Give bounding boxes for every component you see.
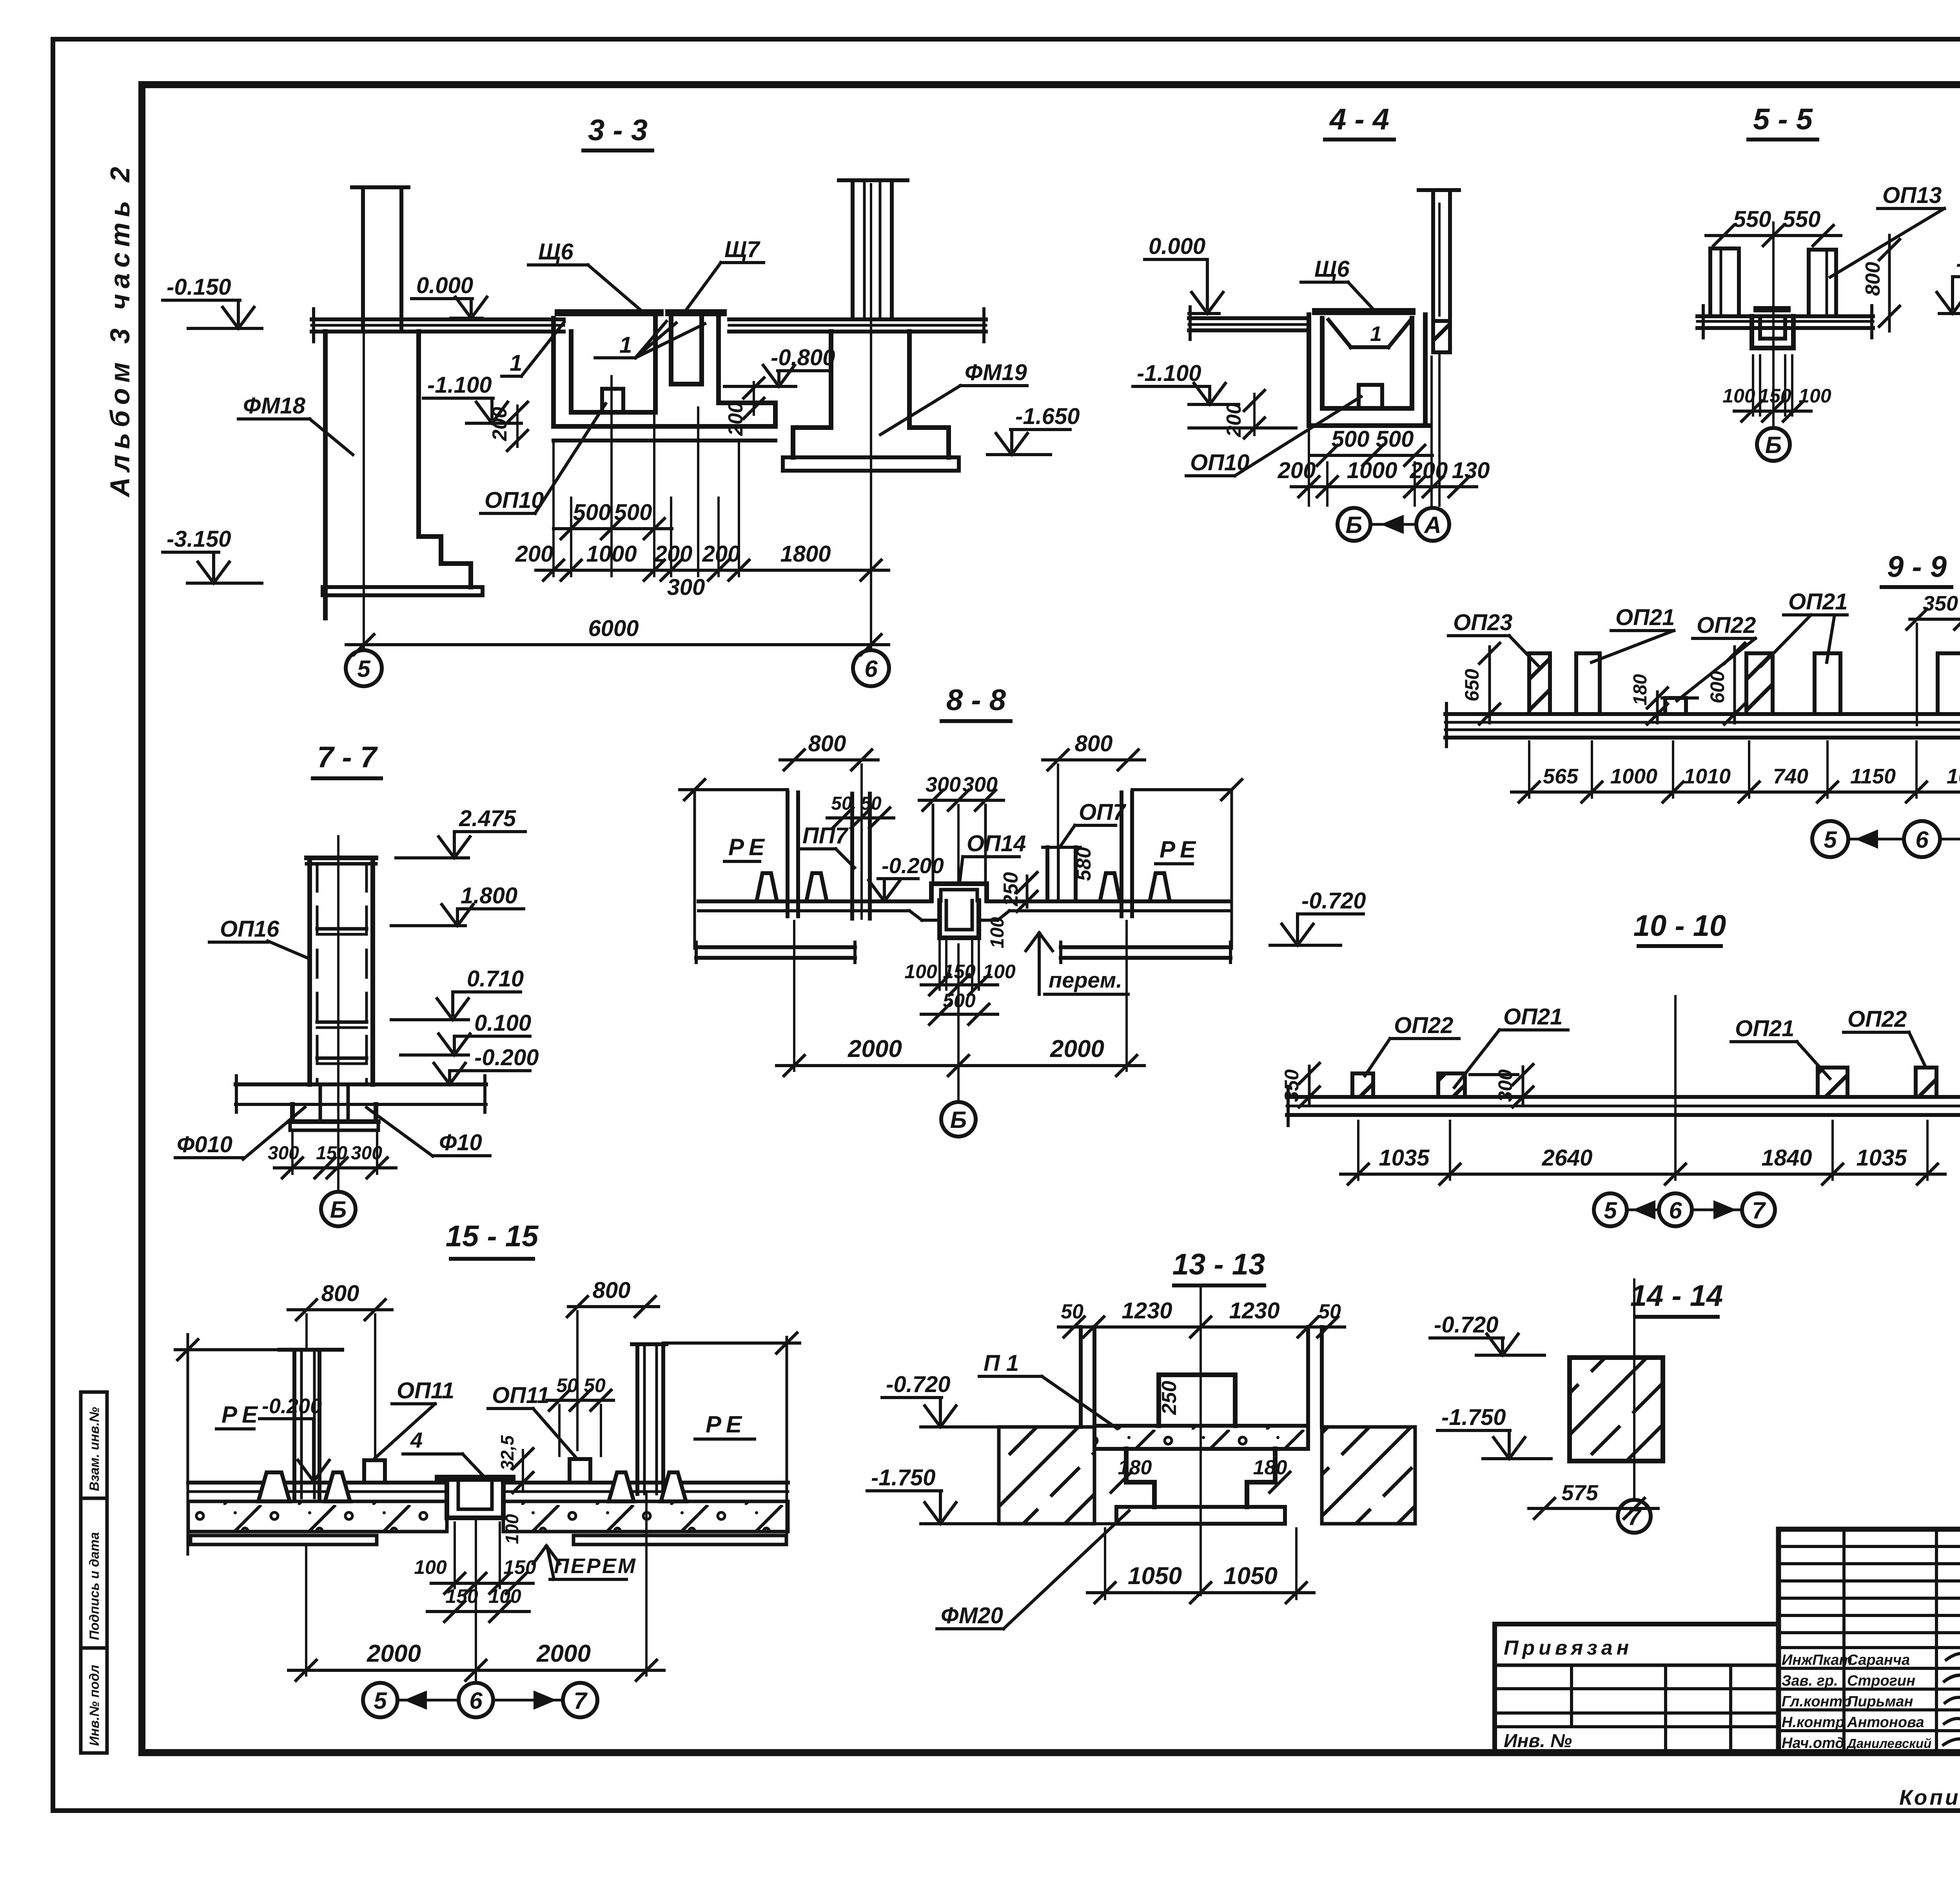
- svg-text:РЕ: РЕ: [221, 1401, 262, 1428]
- signatures: [1946, 1653, 1960, 1662]
- svg-text:50: 50: [556, 1374, 578, 1396]
- section 15-15 floor bumps: [258, 1472, 290, 1501]
- svg-text:250: 250: [1158, 1381, 1181, 1415]
- section 8-8 right post OP7: [1045, 847, 1049, 901]
- svg-text:50: 50: [1318, 1300, 1341, 1323]
- svg-text:Зав. гр.: Зав. гр.: [1782, 1673, 1838, 1689]
- section 5-5 U channel: [1749, 316, 1754, 348]
- section 15-15 block OP11 left: [364, 1460, 385, 1483]
- svg-text:650: 650: [1461, 669, 1483, 702]
- svg-text:1000: 1000: [1610, 765, 1657, 788]
- section 15-15 right boundary extension: [786, 1337, 788, 1542]
- section 5-5 dim 100 150 100: [1734, 410, 1811, 413]
- section 15-15 block OP11 right: [570, 1459, 590, 1483]
- svg-text:100: 100: [904, 961, 937, 983]
- svg-text:5: 5: [374, 1688, 387, 1714]
- section 8-8 left boundary extension: [693, 790, 696, 948]
- svg-text:6: 6: [469, 1688, 483, 1714]
- svg-text:ОП21: ОП21: [1788, 589, 1847, 615]
- svg-text:1050: 1050: [1128, 1563, 1182, 1590]
- svg-text:4: 4: [410, 1428, 423, 1452]
- section 15-15 floor left: [188, 1481, 447, 1485]
- section 8-8 left wall panel: [786, 792, 789, 916]
- svg-text:550: 550: [1733, 207, 1771, 232]
- svg-text:4 - 4: 4 - 4: [1329, 103, 1389, 136]
- section 3-3 left column: [352, 185, 408, 189]
- svg-text:-3.150: -3.150: [167, 526, 231, 552]
- section 13-13 footing below: [1126, 1449, 1154, 1507]
- section 3-3 axis circle 5: [346, 650, 382, 686]
- svg-text:575: 575: [1561, 1480, 1598, 1505]
- svg-text:300: 300: [268, 1143, 299, 1164]
- section 13-13 ground mass left: [999, 1427, 1094, 1524]
- svg-text:1.800: 1.800: [461, 883, 517, 908]
- section 14-14 axis circle 7: [1618, 1500, 1651, 1533]
- section 13-13 ground mass right: [1322, 1427, 1415, 1524]
- svg-text:1800: 1800: [780, 541, 831, 567]
- svg-text:5: 5: [357, 656, 371, 682]
- title block small grid rows: [1779, 1545, 1960, 1548]
- svg-text:Б: Б: [950, 1107, 967, 1133]
- svg-text:-1.650: -1.650: [1015, 404, 1080, 429]
- section 15-15 lower dims row2: [427, 1610, 529, 1613]
- svg-text:Взам. инв.№: Взам. инв.№: [87, 1407, 102, 1491]
- section 9-9 axis circles: [1812, 821, 1848, 857]
- section 3-3 axis line 6: [870, 184, 872, 647]
- section 9-9 post OP23 hatched: [1529, 653, 1550, 714]
- svg-text:Инв. №: Инв. №: [1504, 1731, 1572, 1751]
- section 10-10 300 dim: [1522, 1067, 1524, 1106]
- section 5-5 slab: [1702, 306, 1705, 338]
- section 15-15 axis circles: [363, 1683, 397, 1717]
- section 10-10 extension lines: [1357, 1121, 1359, 1180]
- svg-text:1150: 1150: [1850, 765, 1896, 788]
- svg-text:-1.100: -1.100: [427, 372, 492, 398]
- svg-text:0.710: 0.710: [467, 966, 524, 992]
- svg-text:100: 100: [983, 961, 1016, 983]
- svg-text:Привязан: Привязан: [1504, 1637, 1633, 1659]
- section 9-9 post OP21: [1576, 653, 1600, 714]
- svg-text:200: 200: [1410, 458, 1448, 483]
- svg-text:200: 200: [654, 541, 693, 567]
- section 3-3 anchor block OP10: [602, 389, 623, 412]
- svg-text:ОП13: ОП13: [1882, 183, 1942, 208]
- svg-text:100: 100: [1798, 385, 1831, 407]
- title block name rows: [1779, 1667, 1960, 1670]
- section 3-3 footing FM19: [829, 332, 833, 428]
- svg-text:П 1: П 1: [984, 1351, 1019, 1376]
- section 4-4 pit funnel: [1328, 320, 1351, 347]
- section 4-4 dim 500 500: [1310, 454, 1432, 457]
- svg-text:Гл.контр: Гл.контр: [1782, 1693, 1852, 1710]
- svg-text:300: 300: [351, 1143, 382, 1164]
- svg-text:500: 500: [573, 500, 611, 525]
- section 3-3 floor slab right: [729, 317, 986, 321]
- svg-text:-0.200: -0.200: [474, 1045, 539, 1070]
- svg-text:Инв.№ подл: Инв.№ подл: [87, 1665, 102, 1746]
- section 5-5 800 vertical dim: [1888, 235, 1891, 331]
- svg-text:ФМ20: ФМ20: [941, 1603, 1003, 1628]
- svg-text:ОП11: ОП11: [397, 1378, 454, 1403]
- svg-text:150: 150: [1759, 385, 1791, 407]
- section 10-10 post 4 hatched: [1916, 1068, 1936, 1097]
- svg-text:500: 500: [614, 500, 652, 525]
- section 9-9 post hatched 4: [1746, 653, 1773, 714]
- svg-text:Антонова: Антонова: [1847, 1714, 1924, 1731]
- svg-text:150: 150: [445, 1585, 478, 1607]
- svg-text:7 - 7: 7 - 7: [317, 741, 378, 774]
- svg-text:800: 800: [593, 1278, 631, 1303]
- svg-text:180: 180: [1118, 1456, 1152, 1479]
- section 15-15 base plate left: [191, 1535, 377, 1545]
- section 15-15 dim 800 left: [288, 1308, 392, 1311]
- section 4-4 axis arrow: [1372, 523, 1416, 526]
- svg-text:2640: 2640: [1541, 1145, 1592, 1171]
- svg-text:ОП11: ОП11: [492, 1383, 550, 1408]
- svg-text:100: 100: [502, 1514, 522, 1544]
- section 4-4 extension lines: [1308, 431, 1310, 506]
- section 4-4 floor slab left: [1189, 316, 1309, 320]
- svg-text:13 - 13: 13 - 13: [1172, 1248, 1265, 1281]
- svg-text:1050: 1050: [1223, 1563, 1278, 1590]
- svg-text:250: 250: [1000, 872, 1022, 906]
- section 10-10 center line: [1674, 996, 1677, 1180]
- svg-text:800: 800: [1075, 731, 1113, 756]
- section 15-15 lower dims row1: [454, 1523, 456, 1588]
- svg-text:9 - 9: 9 - 9: [1887, 550, 1947, 584]
- svg-text:180: 180: [1253, 1456, 1287, 1479]
- svg-text:14 - 14: 14 - 14: [1630, 1279, 1723, 1312]
- section 5-5 lid bar: [1757, 306, 1788, 312]
- section 8-8 dim 500: [921, 1013, 998, 1016]
- section 7-7 footing wings: [236, 1082, 486, 1086]
- section 4-4 right column: [1419, 188, 1459, 192]
- svg-text:130: 130: [1452, 458, 1490, 483]
- svg-text:2000: 2000: [367, 1640, 421, 1667]
- section 3-3 dim 500 500: [554, 527, 672, 530]
- section 3-3 dim row 200 1000 200 200 1800: [536, 569, 889, 572]
- svg-text:1: 1: [1370, 322, 1382, 346]
- section 15-15 dim 2000 2000: [305, 1546, 307, 1675]
- svg-text:1010: 1010: [1684, 765, 1731, 788]
- svg-text:50: 50: [860, 793, 882, 814]
- svg-text:-0.720: -0.720: [886, 1372, 950, 1397]
- svg-text:-0.800: -0.800: [771, 345, 835, 370]
- section 4-4 axis circle A: [1416, 508, 1449, 541]
- section 8-8 floor left: [699, 899, 931, 903]
- section 15-15 left boundary extension: [187, 1334, 189, 1554]
- svg-text:2000: 2000: [1050, 1035, 1104, 1062]
- section 3-3 pit walls: [551, 318, 556, 426]
- section 4-4 shield SCH6 bar: [1316, 308, 1412, 315]
- section 10-10 post 1 hatched: [1352, 1073, 1373, 1097]
- section 10-10 post 2 hatched: [1438, 1073, 1465, 1097]
- svg-text:Щ6: Щ6: [538, 239, 573, 265]
- svg-text:200: 200: [515, 541, 554, 567]
- svg-text:800: 800: [321, 1281, 359, 1306]
- section 8-8 bottom plate right: [1061, 945, 1230, 949]
- svg-text:-0.720: -0.720: [1434, 1312, 1498, 1338]
- section 15-15 base plate right: [573, 1535, 786, 1545]
- svg-text:6: 6: [1669, 1197, 1682, 1224]
- svg-text:РЕ: РЕ: [1160, 836, 1200, 863]
- section 7-7 axis line: [337, 836, 339, 1191]
- svg-text:-0.150: -0.150: [167, 274, 231, 300]
- section 3-3 dim 6000: [346, 643, 889, 646]
- svg-text:5 - 5: 5 - 5: [1753, 103, 1813, 136]
- svg-text:200: 200: [1278, 458, 1316, 483]
- svg-text:350: 350: [1281, 1069, 1303, 1102]
- section 9-9 600 dim: [1733, 647, 1736, 723]
- section 3-3 extension lines below pit: [552, 443, 555, 576]
- svg-text:7: 7: [573, 1688, 588, 1714]
- section 8-8 dim 50 50: [827, 816, 894, 819]
- section 9-9 dim 350 top: [1910, 618, 1960, 621]
- svg-text:200: 200: [724, 402, 747, 436]
- title block outer: [1779, 1529, 1960, 1753]
- section 8-8 floor right: [987, 899, 1230, 903]
- section 9-9 650 dim left: [1488, 647, 1491, 723]
- section 3-3 left wall base plate: [323, 587, 483, 595]
- svg-text:ОП21: ОП21: [1735, 1016, 1794, 1041]
- section 3-3 shield SCH7: [669, 309, 723, 316]
- section 3-3 pit 200 vertical dim: [516, 406, 519, 447]
- section 15-15 dim 800 right: [568, 1305, 659, 1308]
- section 3-3 axis line 5: [363, 297, 365, 647]
- svg-text:150: 150: [316, 1143, 347, 1164]
- svg-text:50: 50: [831, 793, 852, 814]
- svg-text:200: 200: [1223, 403, 1245, 437]
- section 8-8 right wall panel: [1120, 792, 1123, 916]
- section 4-4 dim row 200 1000 200 130: [1291, 485, 1477, 488]
- svg-text:Щ6: Щ6: [1314, 256, 1350, 282]
- section 10-10 post 3 hatched: [1818, 1068, 1847, 1097]
- section 8-8 left post PP7 shield: [850, 794, 854, 919]
- svg-text:1: 1: [510, 350, 522, 376]
- svg-text:300: 300: [667, 575, 705, 600]
- section 8-8 lower dims 100 150 100: [938, 941, 941, 990]
- section 9-9 extension lines: [1528, 741, 1530, 798]
- svg-text:50: 50: [1061, 1300, 1083, 1323]
- svg-text:-0.200: -0.200: [882, 853, 944, 878]
- section 13-13 raised block: [1159, 1372, 1235, 1377]
- svg-text:Строгин: Строгин: [1847, 1673, 1915, 1689]
- section 15-15 center channel: [438, 1475, 512, 1482]
- svg-text:-1.750: -1.750: [871, 1465, 935, 1490]
- svg-text:1035: 1035: [1379, 1145, 1430, 1171]
- section 10-10 350 dim: [1308, 1066, 1311, 1105]
- section 7-7 dim 300 150 300: [274, 1166, 396, 1169]
- section 7-7 footing block: [290, 1104, 295, 1122]
- svg-text:-1.750: -1.750: [1441, 1405, 1506, 1430]
- section 4-4 anchor block OP10: [1359, 385, 1382, 408]
- svg-text:ОП16: ОП16: [220, 916, 279, 942]
- svg-text:300: 300: [962, 773, 998, 796]
- section 4-4 pit: [1307, 315, 1311, 426]
- svg-text:ОП10: ОП10: [485, 488, 544, 513]
- svg-text:15 - 15: 15 - 15: [446, 1220, 539, 1253]
- svg-text:1090: 1090: [1947, 765, 1960, 788]
- section 14-14 axis line: [1633, 1280, 1635, 1498]
- svg-text:3 - 3: 3 - 3: [588, 114, 648, 147]
- svg-text:550: 550: [1783, 207, 1821, 232]
- section 8-8 dim 2000 2000: [793, 921, 795, 1071]
- section 8-8 dim 800 left: [780, 758, 878, 761]
- svg-text:5: 5: [1824, 827, 1837, 853]
- section 8-8 250 vertical dim: [1026, 876, 1029, 907]
- svg-text:ИнжПкат: ИнжПкат: [1782, 1652, 1852, 1668]
- section 15-15 concrete band right: [503, 1501, 788, 1532]
- svg-text:А: А: [1423, 512, 1441, 538]
- section 3-3 right column axis6: [839, 178, 907, 182]
- svg-text:1840: 1840: [1761, 1145, 1812, 1171]
- section 5-5 axis circle B: [1757, 428, 1790, 461]
- svg-text:740: 740: [1773, 765, 1808, 788]
- section 9-9 180 dim: [1656, 692, 1659, 723]
- section 15-15 concrete band left: [188, 1501, 447, 1532]
- section 5-5 axis line: [1772, 223, 1775, 426]
- section 8-8 axis circle B: [941, 1102, 976, 1137]
- section 5-5 right post: [1807, 250, 1811, 315]
- section 9-9 slab: [1445, 712, 1960, 716]
- svg-text:600: 600: [1706, 671, 1728, 703]
- section 3-3 shield SCH6: [558, 309, 660, 316]
- section 14-14 hatched pad: [1570, 1358, 1663, 1461]
- svg-text:500: 500: [1376, 426, 1414, 452]
- svg-text:ОП23: ОП23: [1453, 610, 1512, 635]
- section 7-7 column ladder: [307, 856, 376, 860]
- svg-text:Нач.отд: Нач.отд: [1782, 1735, 1844, 1751]
- section 4-4 axis circle B: [1338, 508, 1370, 541]
- svg-text:ПП7: ПП7: [802, 823, 849, 848]
- section 7-7 axis circle B: [321, 1192, 356, 1226]
- svg-text:-0.200: -0.200: [262, 1394, 322, 1418]
- svg-text:100: 100: [987, 917, 1008, 948]
- svg-text:2000: 2000: [848, 1035, 902, 1062]
- section 14-14 dim 575: [1529, 1507, 1658, 1510]
- svg-text:1: 1: [619, 332, 632, 358]
- section 4-4 200 vertical dim: [1253, 394, 1256, 435]
- section 8-8 bottom plate left: [696, 945, 855, 949]
- svg-text:800: 800: [808, 731, 846, 756]
- svg-text:800: 800: [1862, 262, 1884, 296]
- svg-text:ОП14: ОП14: [967, 831, 1026, 856]
- svg-text:перем.: перем.: [1049, 968, 1122, 992]
- svg-text:Б: Б: [1765, 432, 1782, 458]
- section 5-5 dim 550 550: [1706, 234, 1841, 237]
- svg-text:-1.100: -1.100: [1137, 361, 1201, 386]
- section 9-9 post 6: [1938, 653, 1960, 714]
- svg-text:1000: 1000: [1347, 458, 1397, 483]
- section 8-8 right boundary extension: [1230, 790, 1233, 948]
- svg-text:Альбом 3 часть 2: Альбом 3 часть 2: [105, 161, 135, 498]
- section 7-7 extension lines: [291, 1133, 294, 1174]
- svg-text:Копировал: Копировал: [1899, 1785, 1960, 1809]
- svg-text:1035: 1035: [1856, 1145, 1907, 1171]
- svg-text:ОП22: ОП22: [1697, 613, 1756, 638]
- title block left verticals: [1842, 1529, 1846, 1753]
- svg-text:580: 580: [1073, 847, 1095, 881]
- section 3-3 floor slab left: [312, 317, 564, 321]
- section 8-8 dim 800 right: [1043, 758, 1145, 761]
- svg-text:0.100: 0.100: [474, 1010, 531, 1036]
- svg-text:ОП21: ОП21: [1503, 1004, 1563, 1030]
- svg-text:100: 100: [488, 1585, 521, 1607]
- section 15-15 dim 50 50: [547, 1399, 613, 1402]
- svg-text:ОП22: ОП22: [1394, 1013, 1453, 1038]
- section 13-13 top dims: [1058, 1325, 1345, 1329]
- svg-text:-0.200: -0.200: [1956, 251, 1960, 276]
- section 15-15 floor right: [503, 1481, 788, 1485]
- svg-text:0.000: 0.000: [416, 273, 473, 298]
- svg-text:РЕ: РЕ: [706, 1411, 746, 1438]
- svg-text:-0.720: -0.720: [1301, 888, 1366, 914]
- section 3-3 axis circle 6: [853, 650, 889, 686]
- section 10-10 axis circles: [1594, 1193, 1627, 1226]
- svg-text:ФМ19: ФМ19: [965, 360, 1027, 385]
- section 5-5 extension lines below: [1752, 355, 1754, 415]
- section 8-8 dim 300 300: [919, 799, 1004, 802]
- svg-text:200: 200: [488, 407, 511, 441]
- svg-text:2000: 2000: [536, 1640, 591, 1667]
- svg-text:Б: Б: [1346, 512, 1362, 538]
- svg-text:0.000: 0.000: [1149, 234, 1205, 259]
- section 3-3 left wall: [323, 332, 328, 618]
- section 5-5 left post: [1708, 248, 1712, 315]
- section 8-8 center pit channel: [937, 901, 942, 938]
- section 13-13 dim 1050 1050: [1087, 1591, 1314, 1594]
- section 13-13 slab band concrete: [1094, 1426, 1308, 1449]
- svg-text:6: 6: [1915, 827, 1929, 853]
- section 13-13 side shields: [1079, 1327, 1083, 1427]
- section 8-8 floor bumps: [757, 873, 777, 901]
- svg-text:7: 7: [1752, 1197, 1766, 1224]
- svg-text:Данилевский: Данилевский: [1846, 1736, 1931, 1751]
- svg-text:150: 150: [503, 1556, 536, 1578]
- svg-text:10 - 10: 10 - 10: [1633, 909, 1726, 943]
- section 9-9 block OP22 low: [1665, 698, 1686, 714]
- svg-text:Б: Б: [330, 1196, 347, 1223]
- svg-text:Подпись и дата: Подпись и дата: [87, 1532, 102, 1640]
- section 13-13 center axis: [1200, 1285, 1202, 1595]
- svg-text:Н.контр: Н.контр: [1782, 1714, 1844, 1731]
- svg-text:7: 7: [1628, 1504, 1642, 1530]
- section 10-10 dim row: [1341, 1173, 1945, 1176]
- svg-text:100: 100: [1722, 385, 1755, 407]
- svg-text:6000: 6000: [588, 616, 639, 641]
- svg-text:180: 180: [1630, 674, 1651, 705]
- svg-text:ОП7: ОП7: [1079, 799, 1127, 825]
- svg-text:500: 500: [1332, 426, 1370, 452]
- svg-text:300: 300: [1494, 1069, 1516, 1102]
- section 3-3 step 200 vertical dim: [753, 382, 755, 415]
- svg-text:5: 5: [1604, 1197, 1617, 1224]
- svg-text:2.475: 2.475: [459, 806, 516, 831]
- section 4-4 hatched block: [1433, 321, 1450, 352]
- svg-text:1230: 1230: [1229, 1298, 1279, 1323]
- svg-text:ОП21: ОП21: [1615, 605, 1675, 630]
- section 15-15 right wall: [632, 1342, 666, 1346]
- attached table left of title block: [1495, 1624, 1779, 1753]
- svg-text:Ф010: Ф010: [177, 1132, 232, 1157]
- left margin stamp cells: [81, 1392, 107, 1753]
- svg-text:РЕ: РЕ: [728, 834, 769, 860]
- svg-text:ПЕРЕМ: ПЕРЕМ: [554, 1554, 637, 1578]
- section 15-15 left wall: [279, 1348, 342, 1352]
- svg-text:100: 100: [414, 1556, 447, 1578]
- svg-text:50: 50: [584, 1374, 606, 1396]
- svg-text:ОП22: ОП22: [1847, 1006, 1907, 1032]
